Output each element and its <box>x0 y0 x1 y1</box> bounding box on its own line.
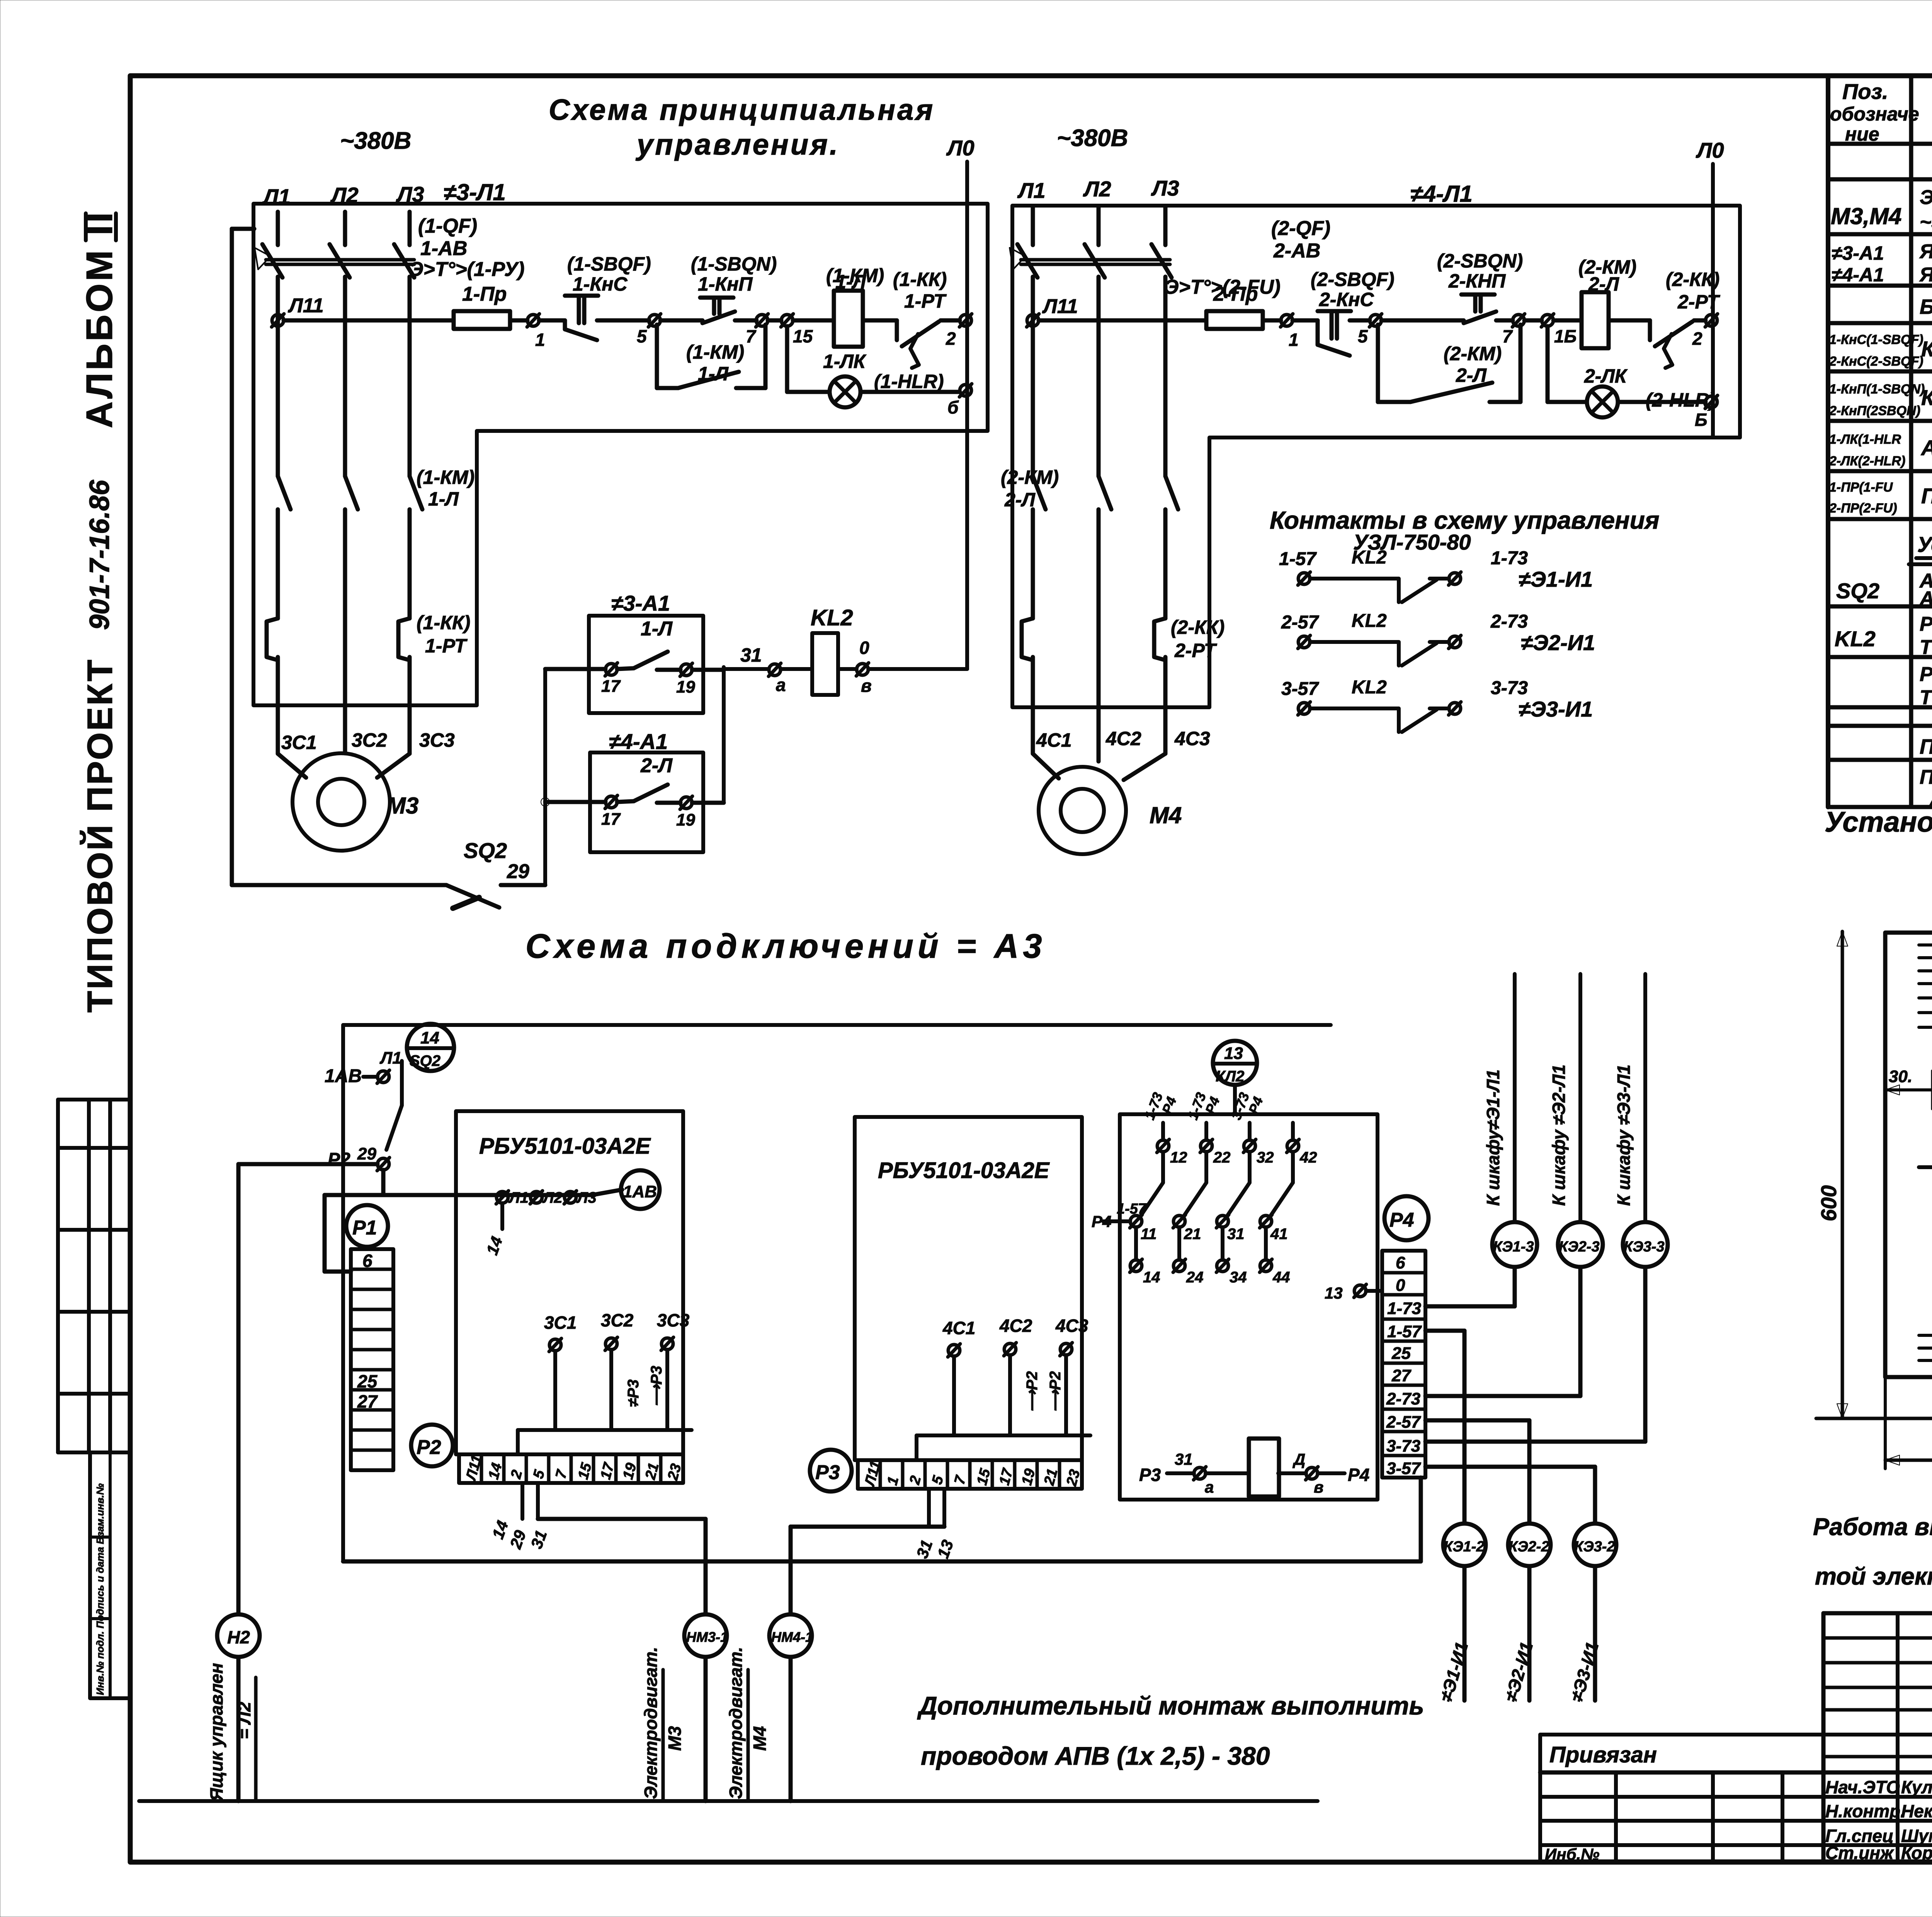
schematic title <box>549 94 935 161</box>
svg-text:25: 25 <box>357 1371 378 1391</box>
svg-text:1-Пр: 1-Пр <box>462 283 507 305</box>
wire strip 1-57 down to KЭ1-2 <box>1425 1331 1464 1524</box>
svg-text:Л11: Л11 <box>287 295 324 317</box>
circuit breaker 1-QF (1-AB) <box>255 215 524 281</box>
svg-text:19: 19 <box>676 810 695 829</box>
svg-text:Поз.: Поз. <box>1842 79 1888 104</box>
top mounting rail band <box>1919 945 1932 1027</box>
table row: fuse PRS-6-P <box>1829 480 1932 516</box>
wire to electric motor M3 <box>538 1519 706 1801</box>
svg-text:4С3: 4С3 <box>1174 728 1210 749</box>
table row: signal lamp AE32111U3 <box>1829 432 1932 468</box>
svg-text:2-АВ: 2-АВ <box>1273 240 1320 262</box>
svg-text:б: б <box>947 397 959 417</box>
inner side panel left <box>1919 1167 1932 1334</box>
node 29 / P2 <box>328 1144 389 1171</box>
table row: button KE-011U3 (KnP) <box>1829 382 1932 418</box>
table row: install additionally note <box>1909 532 1932 564</box>
svg-text:ТИПОВОЙ ПРОЕКТ: ТИПОВОЙ ПРОЕКТ <box>80 658 120 1013</box>
svg-text:Установить дополнительно в ящ: Установить дополнительно в ящике=А3 <box>1917 532 1932 557</box>
KL2 contact row 1 <box>1279 547 1593 602</box>
wires 13 31 below block2 strip <box>913 1489 957 1561</box>
svg-text:1АВ: 1АВ <box>325 1066 362 1086</box>
svg-text:НМ3-1: НМ3-1 <box>686 1629 728 1645</box>
svg-text:14: 14 <box>488 1518 512 1541</box>
terminal marker P3 <box>810 1450 852 1491</box>
table grid <box>1828 76 1932 807</box>
svg-text:17: 17 <box>601 810 621 829</box>
fuse 1-Pr (1-FU) <box>454 283 510 329</box>
svg-text:Р4: Р4 <box>1389 1209 1414 1231</box>
svg-text:2-КНП: 2-КНП <box>1448 270 1506 292</box>
svg-text:0: 0 <box>859 638 869 658</box>
svg-text:2: 2 <box>1692 329 1702 349</box>
svg-text:0: 0 <box>1396 1276 1405 1295</box>
svg-text:1-57: 1-57 <box>1387 1322 1422 1341</box>
svg-text:(2-SBQF): (2-SBQF) <box>1311 269 1395 290</box>
dimension 30/21 left <box>1885 1065 1932 1109</box>
table row: mounting profile K238U2 <box>1920 735 1932 758</box>
svg-text:1-КнС: 1-КнС <box>573 273 628 295</box>
table row: control block RBU5101 <box>1920 295 1932 318</box>
wires 29 31 below block1 strip <box>488 1483 550 1551</box>
node labels L1 L2 L3 (scheme 1) <box>262 182 424 209</box>
svg-text:Нач.ЭТО: Нач.ЭТО <box>1825 1777 1900 1797</box>
table row: control box YAU5115 <box>1832 240 1932 286</box>
node b on L0 <box>947 384 972 417</box>
svg-text:КЛ2: КЛ2 <box>1216 1068 1244 1085</box>
note: installation of RP21 and AE1031 <box>1825 806 1932 838</box>
contactor coil 1-L (1-KM) <box>793 265 884 347</box>
svg-text:1-КнС(1-SBQF): 1-КнС(1-SBQF) <box>1829 332 1923 347</box>
svg-text:ЯУ5115-03А2Е Ун=1,6А Ур=: ЯУ5115-03А2Е Ун=1,6А Ур=2,5А <box>1919 264 1932 286</box>
svg-text:27: 27 <box>357 1391 378 1411</box>
svg-text:2-РТ: 2-РТ <box>1174 640 1218 661</box>
svg-text:14: 14 <box>483 1234 506 1257</box>
svg-text:7: 7 <box>951 1473 969 1486</box>
wire bus to block 1 inputs <box>325 1190 622 1195</box>
wire phase L2 (scheme 2) <box>1097 207 1101 476</box>
relay contact block KL2 <box>1120 1114 1378 1500</box>
motor M4 <box>1039 767 1182 854</box>
node 7 (scheme 2) <box>1502 314 1525 346</box>
svg-text:2-73: 2-73 <box>1490 611 1528 632</box>
wire phase L3 (scheme 1) <box>408 212 412 476</box>
svg-text:(2-КК): (2-КК) <box>1171 616 1225 638</box>
terminal strip P4 <box>1382 1251 1425 1478</box>
svg-text:АЕ 1031-194; 6А; 1,5 Ун; IР: АЕ 1031-194; 6А; 1,5 Ун; IР20 <box>1919 587 1932 610</box>
svg-text:3С1: 3С1 <box>544 1313 577 1333</box>
wires to cabinet K shkafu #Э1-Л1 #Э2-Л1 #Э3-Л1 <box>1483 974 1645 1222</box>
cable marker NM4-1 <box>726 1614 813 1801</box>
svg-text:6: 6 <box>1396 1253 1405 1272</box>
svg-text:2-ЛК: 2-ЛК <box>1584 365 1628 387</box>
wire link to P1 strip <box>325 1195 351 1272</box>
node L11 with rail (scheme 1) <box>272 295 454 327</box>
KL2 block input wire P4 1-57 <box>1092 1201 1147 1231</box>
wire KЭ1-3 to strip 1-73 <box>1425 1267 1515 1306</box>
terminal marker P1 <box>346 1205 388 1247</box>
wire to electric motor M4 <box>791 1527 944 1801</box>
svg-text:в: в <box>861 676 872 696</box>
svg-text:Б: Б <box>1695 410 1708 430</box>
signature table grid <box>1540 1613 1932 1861</box>
svg-text:(2-КМ): (2-КМ) <box>1001 466 1059 488</box>
svg-text:Дополнительный монтаж выполн: Дополнительный монтаж выполнить <box>917 1691 1424 1720</box>
svg-text:Кнопка управления КЕ-011У3: Кнопка управления КЕ-011У3 <box>1921 337 1932 361</box>
node 15 <box>768 314 813 346</box>
svg-text:KL2: KL2 <box>1352 611 1387 631</box>
svg-text:1АВ: 1АВ <box>623 1182 657 1201</box>
svg-text:3-57: 3-57 <box>1281 679 1319 699</box>
svg-text:Н2: Н2 <box>227 1627 250 1647</box>
travel switch SQ2 contact <box>446 838 545 908</box>
svg-text:7: 7 <box>553 1468 571 1480</box>
svg-text:Арматура сигнальная АЕ32111: Арматура сигнальная АЕ32111У3 <box>1920 436 1932 460</box>
svg-text:КЭ2-3: КЭ2-3 <box>1559 1239 1600 1255</box>
svg-text:Ящик управления =А3 типа: Ящик управления =А3 типа <box>1919 240 1932 263</box>
svg-text:Л2: Л2 <box>542 1189 563 1206</box>
svg-text:2-73: 2-73 <box>1386 1389 1420 1408</box>
svg-text:М4: М4 <box>750 1726 770 1751</box>
svg-text:29: 29 <box>506 1528 530 1552</box>
svg-text:= Л2: = Л2 <box>234 1702 254 1739</box>
svg-text:3С3: 3С3 <box>657 1310 690 1330</box>
svg-text:Привязан: Привязан <box>1549 1742 1657 1767</box>
svg-text:2-57: 2-57 <box>1281 612 1319 633</box>
svg-text:14: 14 <box>420 1028 439 1047</box>
svg-text:(1-КК): (1-КК) <box>893 269 947 290</box>
svg-text:27: 27 <box>1391 1366 1412 1385</box>
svg-text:13: 13 <box>934 1537 957 1561</box>
svg-text:1-73: 1-73 <box>1491 548 1528 569</box>
svg-text:≠Р3: ≠Р3 <box>625 1379 642 1407</box>
svg-text:2-КнП(2SBQN): 2-КнП(2SBQN) <box>1829 403 1920 418</box>
node 0 / v after KL2 <box>838 638 967 696</box>
svg-text:Н.контр.: Н.контр. <box>1825 1801 1905 1821</box>
node 1 (scheme 2) <box>1281 314 1299 350</box>
terminal marker P4 <box>1384 1196 1429 1240</box>
svg-text:К шкафу≠Э1-Л1: К шкафу≠Э1-Л1 <box>1483 1069 1503 1206</box>
aux contact box 1-L (=3-A1) <box>545 591 724 713</box>
svg-text:42: 42 <box>1299 1149 1317 1166</box>
push button 1-KnS (1-SBQF) <box>539 253 651 340</box>
wire strip 2-57 down to KЭ2-2 <box>1425 1420 1529 1524</box>
svg-text:(2-QF): (2-QF) <box>1271 217 1330 240</box>
svg-text:41: 41 <box>1270 1226 1288 1243</box>
svg-text:≠Э2-И1: ≠Э2-И1 <box>1521 630 1595 655</box>
svg-text:13: 13 <box>1224 1044 1243 1063</box>
svg-text:1-57: 1-57 <box>1117 1201 1147 1217</box>
svg-text:2-Л: 2-Л <box>1004 489 1036 511</box>
svg-text:3С2: 3С2 <box>601 1310 634 1330</box>
svg-text:а: а <box>776 675 786 695</box>
svg-text:5: 5 <box>530 1468 548 1480</box>
svg-text:31: 31 <box>740 644 762 666</box>
svg-text:2: 2 <box>946 329 956 349</box>
motor M3 <box>293 753 418 851</box>
svg-text:Королева: Королева <box>1901 1843 1932 1863</box>
svg-text:КЭ3-3: КЭ3-3 <box>1624 1239 1665 1255</box>
svg-text:Реле РП21-004- УХЛ4 ~220В: Реле РП21-004- УХЛ4 ~220В <box>1920 613 1932 635</box>
block 1 input nodes L1 L2 L3 <box>483 1189 596 1257</box>
svg-text:29: 29 <box>357 1144 376 1163</box>
signal lamp 1-LK (1-HLR) <box>787 326 960 407</box>
neutral wire L0 (scheme 1) <box>946 136 975 669</box>
svg-text:1-57: 1-57 <box>1279 549 1317 569</box>
node 2 on L0 (scheme 2) <box>1692 314 1718 349</box>
svg-text:(1-КК): (1-КК) <box>417 612 470 633</box>
svg-text:30.: 30. <box>1889 1067 1912 1086</box>
svg-text:Электродвигат.: Электродвигат. <box>726 1647 746 1799</box>
aux contact box 2-L (=4-A1) <box>545 729 724 852</box>
svg-text:34: 34 <box>1230 1269 1247 1286</box>
note: fan interlock text <box>1813 1514 1932 1590</box>
svg-text:6: 6 <box>362 1251 372 1271</box>
block 1 terminal strip <box>459 1453 685 1483</box>
table row: M3,M4 electric motor <box>1831 186 1932 233</box>
svg-text:1-73: 1-73 <box>1387 1299 1421 1318</box>
table header <box>1830 79 1932 145</box>
svg-text:той электрализной установк: той электрализной установки <box>1815 1563 1932 1590</box>
svg-text:⟶Р2: ⟶Р2 <box>1024 1371 1041 1412</box>
KL2 coil row inside block <box>1139 1439 1369 1496</box>
svg-text:≠3-А1: ≠3-А1 <box>1832 242 1884 264</box>
wire KЭ3-3 to strip 3-73 <box>1425 1267 1645 1442</box>
svg-text:5: 5 <box>929 1474 947 1486</box>
contactor main contacts 1-KM on phases <box>278 466 474 618</box>
thermal element 2-RT (2-KK) on phases <box>1022 616 1225 761</box>
node 5 <box>637 314 661 346</box>
svg-text:12: 12 <box>1170 1149 1187 1166</box>
node 31 / a <box>724 644 812 695</box>
table row: socket RP21-2 <box>1920 663 1932 709</box>
wire SQ2 riser <box>541 669 549 885</box>
svg-text:Л0: Л0 <box>946 136 975 160</box>
svg-text:(1-SBQF): (1-SBQF) <box>567 253 651 275</box>
motor terminals 4C1 4C2 4C3 <box>1033 728 1210 780</box>
svg-text:(1-SBQN): (1-SBQN) <box>691 253 777 275</box>
svg-text:~380В: ~380В <box>1057 125 1128 152</box>
wire rail to node 1 (scheme 2) <box>1263 318 1281 323</box>
contactor main contacts 2-KM on phases <box>1001 466 1178 618</box>
svg-text:≠4-Л1: ≠4-Л1 <box>1410 181 1473 207</box>
svg-text:управления.: управления. <box>635 128 840 161</box>
switch 1AB with node L1 <box>325 1049 402 1150</box>
svg-text:⟶Р2: ⟶Р2 <box>1047 1371 1064 1412</box>
svg-text:4С2: 4С2 <box>999 1316 1032 1336</box>
svg-text:2: 2 <box>906 1474 924 1486</box>
node L11 with rail (scheme 2) <box>1027 295 1206 327</box>
svg-text:(2-КМ): (2-КМ) <box>1444 343 1502 364</box>
terminal strip P1 <box>351 1249 393 1470</box>
svg-text:2-КнС(2-SBQF): 2-КнС(2-SBQF) <box>1829 354 1923 369</box>
svg-text:(2-SBQN): (2-SBQN) <box>1437 250 1523 272</box>
table row: relay RP21-004 KL2 <box>1835 613 1932 659</box>
svg-text:5: 5 <box>1358 326 1368 346</box>
svg-text:2-ЛК(2-HLR): 2-ЛК(2-HLR) <box>1829 454 1905 468</box>
wire rail fuse to node 1 <box>510 318 527 323</box>
svg-text:1-ПР(1-FU: 1-ПР(1-FU <box>1829 480 1893 495</box>
svg-text:2-Л: 2-Л <box>640 754 673 777</box>
bottom mounting rail band <box>1919 1335 1932 1360</box>
svg-text:Профиль монтажный К238У2 ℓ: Профиль монтажный К238У2 ℓ=600 <box>1920 735 1932 758</box>
svg-text:в: в <box>1314 1478 1323 1496</box>
svg-text:Л0: Л0 <box>1696 138 1724 162</box>
block 1 motor nodes 3C1 3C2 3C3 <box>518 1310 692 1454</box>
svg-text:(1-КМ): (1-КМ) <box>686 341 744 363</box>
KL2 block contact column 3 <box>1216 1090 1274 1286</box>
svg-text:KL2: KL2 <box>1352 677 1387 698</box>
svg-text:Кулагин: Кулагин <box>1901 1777 1932 1797</box>
svg-text:М3: М3 <box>386 793 418 819</box>
svg-text:≠Э3-И1: ≠Э3-И1 <box>1519 697 1593 721</box>
neutral wire L0 (scheme 2) <box>1696 138 1724 438</box>
svg-text:31: 31 <box>913 1537 936 1561</box>
cable markers KЭ1-3 KЭ2-3 KЭ3-3 <box>1492 1222 1668 1267</box>
svg-text:ТУ16-523, 593-80: ТУ16-523, 593-80 <box>1920 686 1932 709</box>
svg-text:Ящик управлен: Ящик управлен <box>206 1663 226 1801</box>
cable marker H2 <box>206 1614 260 1801</box>
svg-text:К шкафу ≠Э2-Л1: К шкафу ≠Э2-Л1 <box>1549 1064 1569 1206</box>
svg-text:К шкафу ≠Э3-Л1: К шкафу ≠Э3-Л1 <box>1614 1064 1634 1206</box>
svg-text:≠4-А1: ≠4-А1 <box>609 729 668 754</box>
svg-text:≠3-А1: ≠3-А1 <box>611 591 670 615</box>
left margin: project number text <box>80 480 120 1013</box>
svg-text:31: 31 <box>1175 1450 1193 1468</box>
svg-text:44: 44 <box>1272 1269 1290 1286</box>
wire joining aux boxes <box>722 667 726 803</box>
svg-text:4С1: 4С1 <box>942 1318 975 1338</box>
svg-text:Л1: Л1 <box>508 1189 529 1206</box>
svg-text:KL2: KL2 <box>1835 627 1876 651</box>
thermal element 1-RT (1-KK) on phases <box>267 612 470 754</box>
svg-text:Некрасов: Некрасов <box>1901 1801 1932 1821</box>
svg-text:Л3: Л3 <box>1151 176 1179 200</box>
svg-text:KL2: KL2 <box>1352 547 1387 568</box>
svg-text:1-Л: 1-Л <box>835 271 866 293</box>
svg-text:⟶Р3: ⟶Р3 <box>648 1366 665 1407</box>
svg-text:17: 17 <box>601 677 621 696</box>
svg-text:SQ2: SQ2 <box>1836 579 1879 603</box>
svg-text:5: 5 <box>637 326 647 346</box>
KL2 contact row 3 <box>1281 677 1593 732</box>
svg-text:1-ЛК(1-HLR: 1-ЛК(1-HLR <box>1829 432 1901 447</box>
svg-text:22: 22 <box>1213 1149 1231 1166</box>
wire P4 bottom link <box>343 1478 1421 1561</box>
svg-text:25: 25 <box>1391 1344 1411 1363</box>
dimension 600 vertical left <box>1816 931 1932 1418</box>
wire to control box H2 <box>236 1164 241 1801</box>
interlock wire from box to SQ2 <box>232 229 446 885</box>
svg-text:Р4: Р4 <box>1348 1465 1369 1485</box>
block 2 motor nodes 4C1 4C2 4C3 <box>917 1316 1090 1460</box>
svg-text:М3: М3 <box>665 1726 685 1751</box>
svg-text:3-57: 3-57 <box>1386 1459 1422 1478</box>
svg-text:Л11: Л11 <box>1042 295 1078 318</box>
svg-text:32: 32 <box>1257 1149 1274 1166</box>
wire KЭ2-3 to strip 2-73 <box>1425 1267 1580 1396</box>
svg-text:Кнопка управления КЕ-011У3: Кнопка управления КЕ-011У3 <box>1921 385 1932 410</box>
svg-text:1-Л: 1-Л <box>428 488 459 510</box>
svg-text:31: 31 <box>527 1528 550 1551</box>
svg-text:≠3-Л1: ≠3-Л1 <box>444 179 506 205</box>
svg-text:Предохранитель ПРС-6-П: Предохранитель ПРС-6-П <box>1921 484 1932 508</box>
svg-text:Л3: Л3 <box>576 1189 597 1206</box>
svg-text:2: 2 <box>508 1468 526 1481</box>
control box outline YAU =A3 (scheme 2) <box>1012 206 1740 707</box>
terminal marker P2 <box>411 1425 453 1466</box>
svg-text:1Б: 1Б <box>1554 326 1577 346</box>
svg-text:Р2: Р2 <box>417 1436 441 1459</box>
thermal contact 1-RT (1-KK) <box>863 269 947 368</box>
svg-text:11: 11 <box>1141 1226 1157 1243</box>
svg-text:КЭ1-3: КЭ1-3 <box>1493 1239 1534 1255</box>
svg-text:1-РТ: 1-РТ <box>425 635 468 657</box>
signature table texts <box>1545 1742 1932 1863</box>
table row: button KE-011U3 (KnS) <box>1829 332 1932 369</box>
push button 2-KnP (2-SBQN) <box>1381 250 1523 323</box>
node 5 (scheme 2) <box>1358 314 1382 346</box>
svg-text:Схема принципиальная: Схема принципиальная <box>549 94 935 126</box>
svg-text:14: 14 <box>1143 1269 1160 1286</box>
svg-text:КЭ1-2: КЭ1-2 <box>1444 1539 1485 1555</box>
section boundary wire top <box>343 1025 1331 1561</box>
cable marker 1AB <box>621 1170 660 1209</box>
svg-text:1-КнП: 1-КнП <box>698 273 753 295</box>
svg-text:7: 7 <box>746 326 757 346</box>
cable marker 13/KL2 <box>1213 1041 1257 1114</box>
svg-text:Провод с алюминиевой жилой: Провод с алюминиевой жилой <box>1920 766 1932 788</box>
svg-text:Электродвигат.: Электродвигат. <box>641 1647 661 1799</box>
svg-text:24: 24 <box>1186 1269 1204 1286</box>
svg-text:РБУ5101-03А2Е: РБУ5101-03А2Е <box>878 1158 1050 1183</box>
wires to electrolyzers #Э1-И1 #Э2-И1 #Э3-И1 <box>1436 1566 1603 1704</box>
svg-text:SQ2: SQ2 <box>410 1052 440 1069</box>
svg-text:1-ЛК: 1-ЛК <box>823 351 867 372</box>
wire phase L3 (scheme 2) <box>1163 207 1168 476</box>
block 2 terminal strip <box>858 1459 1083 1489</box>
control box outline YAU =A3 (scheme 1) <box>253 204 988 705</box>
svg-text:1: 1 <box>1289 330 1299 350</box>
svg-text:Инб.№: Инб.№ <box>1545 1845 1599 1863</box>
table row: breaker AE1031 SQ2 <box>1836 570 1932 610</box>
svg-text:1-АВ: 1-АВ <box>420 237 467 260</box>
svg-text:Р1: Р1 <box>352 1217 377 1239</box>
svg-text:Л2: Л2 <box>1083 177 1111 201</box>
KL2 block contact column 1 <box>1130 1090 1187 1286</box>
svg-text:2-Л: 2-Л <box>1588 273 1619 295</box>
svg-text:ние: ние <box>1845 123 1879 145</box>
left margin: stamp table <box>58 1100 130 1452</box>
svg-text:7: 7 <box>1502 326 1513 346</box>
dimension 600 bottom <box>1885 1377 1932 1469</box>
contactor coil 2-L (2-KM) <box>1553 256 1636 348</box>
svg-text:Схема подключений = А3: Схема подключений = А3 <box>526 927 1046 965</box>
section title <box>1270 506 1659 554</box>
svg-text:а: а <box>1205 1478 1214 1496</box>
svg-text:Установка РП21 и АЕ 1031 в: Установка РП21 и АЕ 1031 в ящике управле… <box>1825 806 1932 838</box>
svg-text:2-57: 2-57 <box>1386 1413 1422 1432</box>
svg-text:КЭ2-2: КЭ2-2 <box>1509 1539 1549 1555</box>
svg-text:3С1: 3С1 <box>281 732 317 753</box>
node 1 <box>527 314 545 350</box>
KL2 block contact column 4 <box>1260 1123 1317 1286</box>
svg-text:Д: Д <box>1293 1450 1305 1468</box>
control block 2 RBU5101-03A2E <box>855 1117 1082 1460</box>
svg-text:Р3: Р3 <box>815 1461 840 1484</box>
node 7 <box>746 314 768 346</box>
